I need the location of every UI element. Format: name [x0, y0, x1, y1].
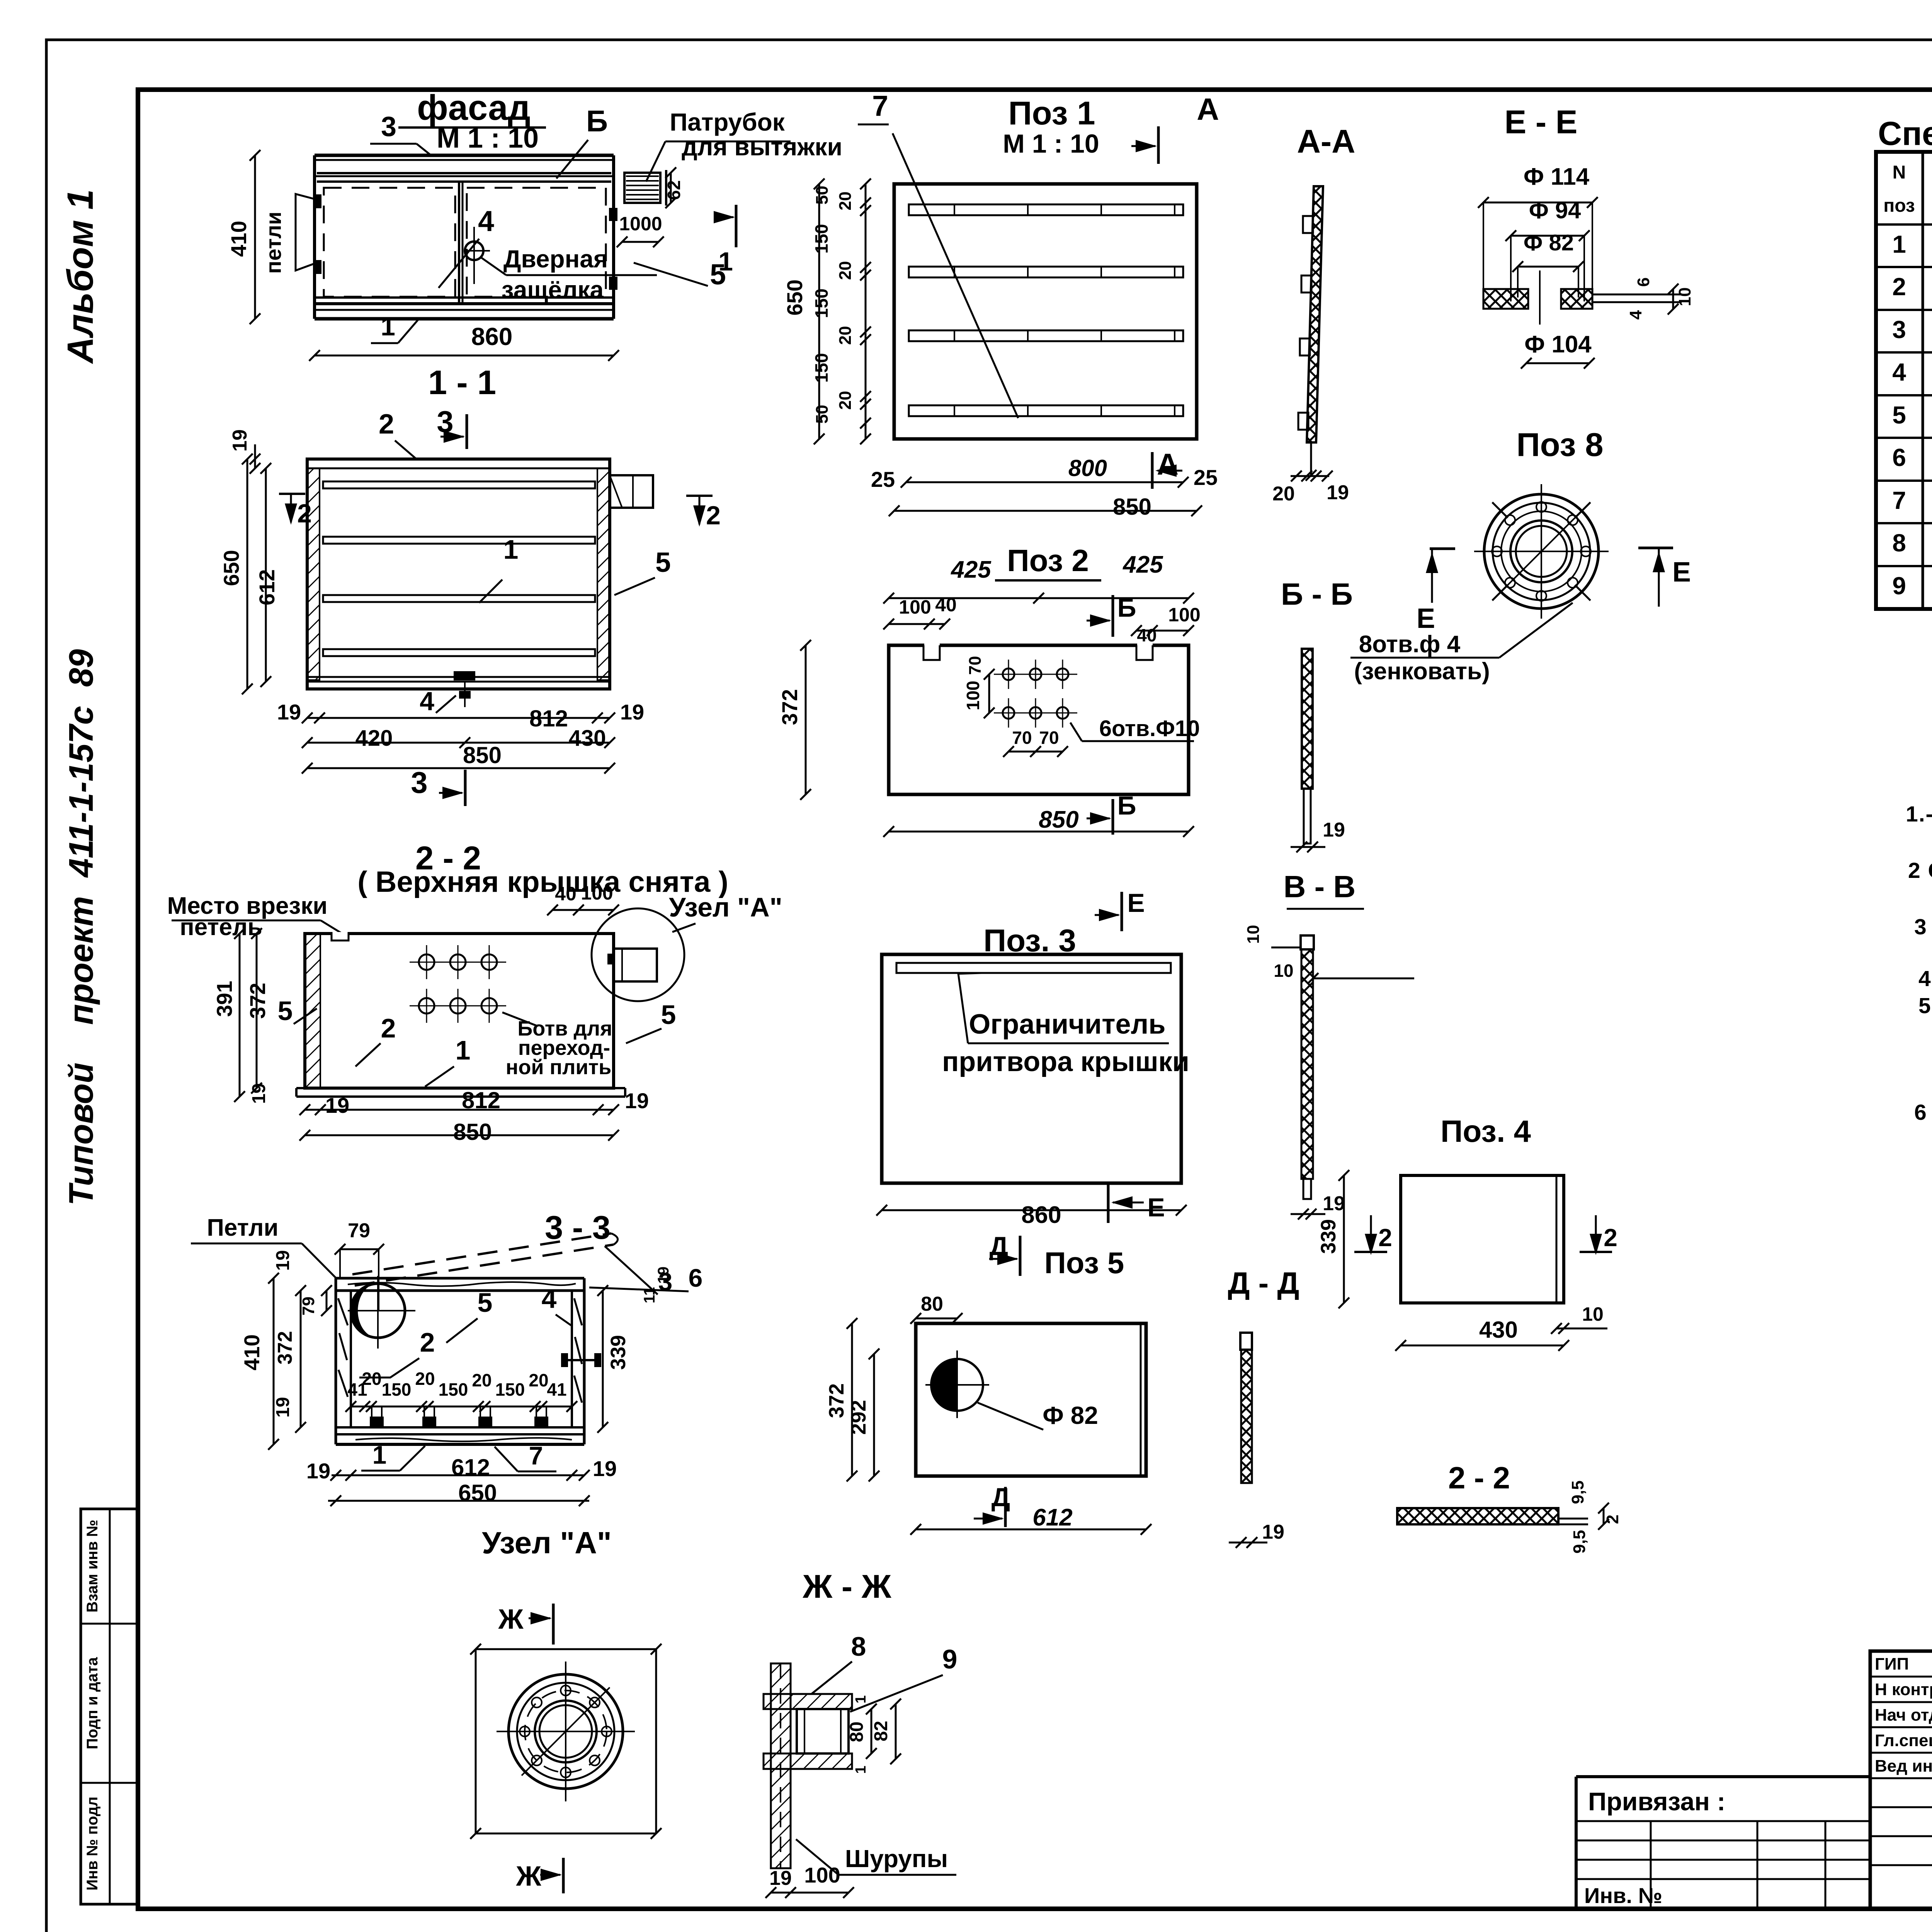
В-В board section [1301, 935, 1314, 949]
svg-text:4: 4 [542, 1284, 557, 1314]
1-1 cabinet body [307, 459, 610, 689]
svg-text:Б: Б [586, 104, 608, 138]
svg-text:Узел "А": Узел "А" [669, 892, 782, 922]
svg-text:19: 19 [1327, 481, 1349, 504]
1-1 left wall hatch [307, 468, 320, 680]
Поз 5 dim 612 [916, 1529, 1146, 1531]
svg-text:5: 5 [661, 1000, 676, 1030]
svg-text:для вытяжки: для вытяжки [682, 133, 842, 161]
Поз 8 centerlines [1474, 551, 1609, 552]
Ж-Ж flange plates [764, 1694, 852, 1709]
svg-text:41: 41 [547, 1379, 566, 1400]
Поз 2 panel [889, 645, 1189, 794]
svg-text:20: 20 [836, 261, 855, 280]
svg-text:Д: Д [992, 1483, 1010, 1512]
2-2 hole circles [419, 954, 434, 970]
svg-text:19: 19 [273, 1250, 293, 1270]
svg-text:Узел "А": Узел "А" [482, 1526, 612, 1560]
Поз 8 section mark Е left [1430, 548, 1455, 550]
3-3 dims 410 372 19 left [273, 1278, 275, 1444]
uzel A flange circles [509, 1674, 623, 1789]
Поз 2 bottom dim 850 [889, 831, 1189, 833]
svg-text:7: 7 [872, 90, 888, 122]
svg-text:8: 8 [1892, 529, 1906, 557]
svg-text:1 - 1: 1 - 1 [428, 363, 496, 401]
svg-text:5: 5 [655, 547, 671, 578]
svg-text:19: 19 [593, 1456, 617, 1481]
2-2 body [305, 934, 614, 1088]
Е-Е ring section [1483, 289, 1528, 309]
svg-text:80: 80 [847, 1721, 867, 1742]
svg-text:1: 1 [718, 247, 733, 276]
2-2 gasket bar [1397, 1508, 1558, 1524]
svg-text:19: 19 [277, 700, 301, 724]
Поз 4 section marks 2 [1370, 1215, 1372, 1252]
svg-text:6отв.Ф10: 6отв.Ф10 [1099, 716, 1200, 741]
svg-text:Взам инв №: Взам инв № [84, 1520, 101, 1612]
svg-text:150: 150 [811, 224, 832, 254]
svg-text:20: 20 [836, 391, 855, 410]
1-1 shelves [323, 481, 595, 488]
svg-text:Поз 5: Поз 5 [1044, 1246, 1124, 1280]
2-2 uzel A circle [592, 908, 684, 1001]
svg-text:70: 70 [1012, 728, 1032, 748]
1-1 section mark 2 right [686, 495, 713, 497]
svg-text:372: 372 [274, 1331, 296, 1365]
svg-text:Дверная: Дверная [503, 245, 608, 273]
svg-text:3 . В местах притвора крышк: 3 . В местах притвора крышки дверок для … [1914, 915, 1932, 939]
svg-text:2 Сопряжения из элементов: 2 Сопряжения из элементов шкафа на шипах… [1908, 858, 1932, 883]
svg-text:62: 62 [664, 180, 684, 200]
svg-text:20: 20 [362, 1369, 381, 1389]
svg-text:3: 3 [381, 111, 396, 142]
svg-text:79: 79 [299, 1297, 318, 1316]
Поз 2 dim 372 left [805, 645, 807, 794]
Поз 5 panel [916, 1323, 1146, 1476]
Ж-Ж wall section [771, 1663, 791, 1868]
1-1 dims 650 612 left [247, 459, 248, 689]
svg-text:М 1 : 10: М 1 : 10 [1003, 129, 1099, 158]
svg-text:2: 2 [1604, 1224, 1617, 1252]
svg-text:20: 20 [472, 1370, 492, 1390]
svg-text:150: 150 [382, 1379, 412, 1400]
svg-text:25: 25 [1194, 465, 1218, 490]
svg-text:2: 2 [297, 499, 312, 528]
svg-text:Ж - Ж: Ж - Ж [802, 1568, 891, 1605]
1-1 section mark 2 left [279, 493, 305, 495]
svg-text:Ж: Ж [498, 1604, 524, 1635]
svg-text:10: 10 [1582, 1303, 1604, 1325]
svg-text:М 1 : 10: М 1 : 10 [437, 123, 539, 154]
svg-text:650: 650 [219, 550, 243, 586]
3-3 hinge circle [351, 1284, 405, 1338]
svg-text:7: 7 [1892, 486, 1906, 514]
svg-text:1: 1 [1892, 230, 1906, 258]
svg-text:9,5: 9,5 [1570, 1530, 1589, 1553]
2-2 top notch [332, 932, 349, 940]
svg-text:Ограничитель: Ограничитель [969, 1009, 1165, 1040]
svg-text:19: 19 [249, 1083, 269, 1104]
svg-text:9: 9 [942, 1644, 957, 1674]
Поз 2 section mark Б bottom [1112, 799, 1114, 835]
svg-text:50: 50 [813, 405, 832, 424]
svg-text:Б - Б: Б - Б [1281, 577, 1353, 611]
2-2 right corner plate [614, 949, 657, 981]
Ж-Ж bottom dims 19 100 [771, 1892, 849, 1894]
svg-text:8отв.ф 4: 8отв.ф 4 [1359, 631, 1461, 658]
svg-text:82: 82 [871, 1721, 891, 1741]
3-3 bottom board [336, 1426, 584, 1429]
svg-text:19: 19 [769, 1867, 792, 1889]
svg-text:1: 1 [853, 1765, 869, 1774]
svg-text:Вед инж: Вед инж [1875, 1757, 1932, 1776]
3-3 dim row 41 20 150 ... [351, 1406, 572, 1408]
svg-text:ГИП: ГИП [1875, 1655, 1909, 1673]
svg-text:20: 20 [836, 326, 855, 345]
svg-text:70: 70 [966, 656, 985, 675]
svg-text:80: 80 [921, 1293, 943, 1315]
svg-text:2: 2 [381, 1013, 396, 1043]
title block Привязан box [1576, 1775, 1870, 1778]
2-2 bottom dims 19 812 19 [305, 1109, 614, 1111]
svg-text:1: 1 [456, 1035, 471, 1065]
svg-text:19: 19 [1323, 819, 1345, 841]
фасад vent patrubok [624, 173, 660, 203]
svg-text:Ф 114: Ф 114 [1524, 163, 1590, 190]
svg-text:1: 1 [853, 1695, 869, 1703]
svg-text:650: 650 [782, 279, 807, 315]
Поз 5 section mark Д top [1019, 1236, 1022, 1276]
svg-text:петли: петли [261, 212, 286, 274]
svg-text:9,5: 9,5 [1568, 1480, 1587, 1504]
svg-text:Подп и дата: Подп и дата [84, 1657, 101, 1749]
Поз 1 bottom dims 25 800 25 850 [906, 481, 1183, 483]
svg-text:Нач отд.: Нач отд. [1875, 1706, 1932, 1725]
svg-text:11: 11 [641, 1287, 658, 1303]
svg-text:Ф 82: Ф 82 [1043, 1401, 1098, 1429]
svg-text:Петли: Петли [207, 1214, 278, 1241]
svg-text:612: 612 [451, 1454, 490, 1480]
svg-text:3 - 3: 3 - 3 [545, 1209, 611, 1246]
svg-text:1: 1 [503, 534, 519, 565]
svg-text:Поз 8: Поз 8 [1516, 427, 1603, 463]
svg-text:6: 6 [1634, 277, 1653, 287]
svg-text:Инв № подл: Инв № подл [84, 1796, 101, 1890]
Поз 1 left dims [865, 184, 867, 439]
svg-text:150: 150 [811, 353, 832, 383]
svg-text:Поз. 4: Поз. 4 [1440, 1114, 1531, 1148]
svg-text:Е: Е [1147, 1193, 1165, 1222]
svg-text:19: 19 [1323, 1192, 1345, 1215]
svg-text:425: 425 [1122, 551, 1163, 578]
svg-text:372: 372 [777, 689, 802, 725]
svg-text:10: 10 [1274, 961, 1293, 981]
svg-text:Е - Е: Е - Е [1505, 104, 1578, 141]
svg-text:Ф 94: Ф 94 [1529, 197, 1581, 223]
svg-text:150: 150 [439, 1379, 468, 1400]
svg-text:4: 4 [420, 687, 434, 716]
svg-text:850: 850 [453, 1119, 492, 1145]
Поз 5 dims 372 292 left [851, 1323, 853, 1476]
svg-text:Гл.спец: Гл.спец [1875, 1731, 1932, 1750]
svg-text:Ф 104: Ф 104 [1524, 331, 1592, 358]
svg-text:3: 3 [1892, 316, 1906, 344]
svg-text:Ф 82: Ф 82 [1524, 230, 1574, 255]
Поз 2 holes 6x Ф10 [1003, 668, 1014, 680]
svg-text:2: 2 [420, 1327, 435, 1357]
svg-text:100: 100 [1168, 604, 1200, 626]
фасад cabinet top cap [315, 154, 614, 157]
svg-text:850: 850 [1113, 494, 1151, 520]
svg-text:2: 2 [1378, 1224, 1392, 1252]
1-1 bottom dims 19 812 19 [307, 717, 610, 719]
А-А board section [1307, 186, 1323, 442]
svg-text:2: 2 [379, 409, 394, 440]
svg-text:Патрубок: Патрубок [670, 108, 785, 136]
svg-text:Поз 1: Поз 1 [1008, 95, 1095, 132]
Поз 5 hole Ф82 [931, 1359, 983, 1411]
svg-text:372: 372 [825, 1383, 848, 1418]
Поз 1 slats [909, 204, 1183, 215]
фасад door latch circle [465, 241, 483, 260]
svg-text:40: 40 [935, 594, 957, 616]
svg-text:50: 50 [813, 186, 832, 205]
svg-text:339: 339 [607, 1335, 630, 1370]
svg-text:650: 650 [458, 1480, 497, 1506]
svg-text:10: 10 [1675, 287, 1694, 306]
svg-text:19: 19 [229, 429, 251, 452]
svg-text:5 Проводка проводов осущест: 5 Проводка проводов осуществляется через… [1918, 993, 1932, 1018]
Поз 4 panel [1401, 1175, 1564, 1303]
svg-text:поз: поз [1883, 196, 1915, 216]
1-1 right wall hatch [597, 468, 610, 680]
svg-text:25: 25 [871, 467, 895, 492]
svg-text:372: 372 [245, 983, 270, 1019]
фасад hinges [314, 195, 321, 207]
svg-text:1.- Аккумуляторный шкаф из: 1.- Аккумуляторный шкаф из досок после [1906, 802, 1932, 827]
uzel A bolt holes [561, 1685, 571, 1696]
svg-text:защёлка: защёлка [502, 276, 604, 304]
svg-text:430: 430 [1479, 1317, 1518, 1343]
svg-text:19: 19 [625, 1088, 649, 1113]
svg-text:6: 6 [689, 1264, 703, 1292]
svg-text:19: 19 [273, 1397, 293, 1417]
2-2 bottom base board [296, 1087, 625, 1089]
svg-text:19: 19 [620, 700, 644, 724]
svg-text:430: 430 [569, 726, 606, 751]
3-3 open lid dashed [352, 1233, 611, 1274]
svg-text:410: 410 [240, 1334, 264, 1370]
1-1 vent patrubok right [610, 475, 653, 508]
svg-text:19: 19 [655, 1267, 672, 1284]
1-1 bottom latch [454, 672, 474, 680]
2-2 left wall hatch [305, 934, 320, 1088]
svg-text:А: А [1197, 92, 1219, 126]
svg-text:Д - Д: Д - Д [1228, 1266, 1299, 1300]
3-3 dims right 339 11 19 [602, 1291, 604, 1427]
svg-text:Поз 2: Поз 2 [1007, 543, 1089, 578]
svg-text:1: 1 [372, 1440, 387, 1469]
svg-text:ной плиты: ной плиты [506, 1056, 616, 1079]
spec table grid [1876, 152, 1932, 609]
Б-Б board section [1302, 649, 1313, 789]
uzel A dimension box [475, 1649, 477, 1833]
1-1 bottom board [307, 676, 610, 678]
2-2 dim 850 [305, 1134, 614, 1136]
Поз 2 section mark Б top [1112, 595, 1114, 637]
svg-text:В - В: В - В [1284, 869, 1356, 904]
Поз 4 dim 339 left [1343, 1175, 1345, 1303]
svg-text:800: 800 [1068, 455, 1107, 481]
2-2 dims 391 372 left [239, 934, 241, 1097]
svg-text:Шурупы: Шурупы [845, 1845, 948, 1872]
svg-text:2 - 2: 2 - 2 [1448, 1461, 1510, 1495]
фасад dim 860 [315, 355, 614, 357]
svg-text:притвора крышки: притвора крышки [942, 1046, 1189, 1077]
svg-text:20: 20 [836, 192, 855, 211]
svg-text:2: 2 [1892, 273, 1906, 301]
svg-text:N: N [1893, 162, 1906, 183]
svg-text:4 Шкаф внутри окрашивается: 4 Шкаф внутри окрашивается щелочноупорно… [1918, 966, 1932, 991]
svg-text:100: 100 [804, 1863, 840, 1887]
фасад section mark 1 right [735, 205, 738, 247]
svg-text:8: 8 [851, 1631, 866, 1662]
svg-text:100: 100 [899, 596, 931, 618]
svg-text:860: 860 [1021, 1202, 1061, 1228]
Д-Д board section [1240, 1333, 1252, 1350]
svg-text:Б: Б [1117, 791, 1136, 820]
svg-text:812: 812 [462, 1087, 500, 1113]
svg-text:391: 391 [212, 981, 236, 1017]
svg-text:612: 612 [255, 569, 279, 605]
svg-text:2: 2 [706, 501, 721, 530]
svg-text:40: 40 [555, 883, 577, 905]
Поз 3 bottom dim 860 [882, 1209, 1181, 1211]
svg-text:петель: петель [180, 914, 262, 940]
svg-text:4: 4 [1626, 310, 1645, 320]
Поз 2 top dims 425 425 [889, 597, 1189, 599]
svg-text:19: 19 [325, 1093, 349, 1117]
svg-text:150: 150 [495, 1379, 525, 1400]
А-А bottom dims 20 19 [1310, 442, 1312, 475]
svg-text:850: 850 [1039, 806, 1078, 833]
svg-text:850: 850 [463, 742, 502, 768]
фасад left door dashed [324, 188, 455, 297]
фасад bottom band [315, 296, 614, 299]
svg-text:10: 10 [1244, 925, 1263, 944]
фасад door divider [458, 182, 460, 304]
svg-text:1000: 1000 [619, 213, 662, 235]
uzel A centerlines [497, 1731, 635, 1732]
title block signature table [1870, 1651, 1932, 1909]
svg-text:6: 6 [1892, 444, 1906, 471]
svg-text:фасад: фасад [417, 88, 531, 128]
svg-text:9: 9 [1892, 572, 1906, 600]
svg-text:292: 292 [847, 1400, 870, 1435]
svg-text:4: 4 [478, 205, 494, 237]
svg-text:Е: Е [1672, 557, 1691, 588]
svg-text:79: 79 [348, 1219, 370, 1242]
bottom-left stamp strip [81, 1509, 138, 1904]
svg-text:150: 150 [811, 289, 832, 318]
svg-text:Привязан :: Привязан : [1588, 1787, 1725, 1816]
Поз 2 notches [924, 643, 940, 648]
svg-text:Ж: Ж [515, 1861, 541, 1892]
svg-text:612: 612 [1032, 1504, 1072, 1531]
фасад dim 410 vertical [254, 155, 256, 319]
svg-text:20: 20 [529, 1370, 548, 1390]
Ж-Ж dims 80 82 right [871, 1709, 872, 1753]
svg-text:19: 19 [306, 1459, 330, 1483]
3-3 latch right [564, 1359, 599, 1361]
3-3 bottom dims 19 612 19 650 [332, 1475, 584, 1476]
svg-text:100: 100 [581, 882, 613, 904]
svg-text:420: 420 [355, 726, 393, 751]
Поз 8 section mark Е right [1638, 547, 1673, 549]
svg-text:410: 410 [226, 221, 251, 257]
Ж-Ж pipe [797, 1709, 849, 1753]
svg-text:6 Петли - 6 шт защелка: 6 Петли - 6 шт защелка дверная - 1 шт [1914, 1100, 1932, 1125]
svg-text:339: 339 [1317, 1219, 1340, 1254]
Поз 8 ring with bolt holes [1484, 494, 1599, 609]
svg-text:Б: Б [1117, 593, 1136, 622]
svg-text:Н контр: Н контр [1875, 1680, 1932, 1699]
svg-text:Типовой проект 411-1-157с: Типовой проект 411-1-157с 89 [62, 649, 100, 1206]
svg-text:20: 20 [1272, 483, 1295, 505]
Поз 3 section mark Е top [1121, 892, 1123, 931]
svg-text:425: 425 [950, 556, 992, 583]
svg-text:Е: Е [1127, 888, 1145, 918]
svg-text:20: 20 [415, 1369, 435, 1389]
svg-text:Альбом 1: Альбом 1 [60, 189, 101, 364]
svg-text:100: 100 [963, 681, 983, 711]
svg-text:7: 7 [529, 1441, 543, 1470]
svg-text:(зенковать): (зенковать) [1354, 658, 1490, 685]
1-1 dim 850 [307, 767, 610, 769]
svg-text:70: 70 [1039, 728, 1059, 748]
1-1 dims 420 430 [307, 742, 610, 744]
svg-text:19: 19 [1262, 1521, 1284, 1543]
А-А rail tabs [1303, 216, 1313, 233]
svg-text:Е: Е [1417, 603, 1435, 634]
svg-text:Д: Д [990, 1231, 1008, 1261]
svg-text:А-А: А-А [1297, 123, 1355, 160]
svg-text:812: 812 [529, 706, 568, 731]
фасад right door dashed [467, 188, 606, 297]
3-3 rail posts [371, 1406, 372, 1427]
svg-text:Спецификация на шкаф: Спецификация на шкаф [1878, 115, 1932, 152]
Поз 3 limiter strip [896, 963, 1171, 973]
3-3 body walls [335, 1278, 337, 1444]
svg-text:1: 1 [381, 312, 395, 341]
svg-text:5: 5 [1892, 401, 1906, 429]
svg-text:5: 5 [478, 1287, 493, 1318]
svg-text:3: 3 [411, 765, 427, 799]
svg-text:860: 860 [471, 323, 513, 350]
svg-text:4: 4 [1892, 358, 1906, 386]
svg-text:Инв. №: Инв. № [1584, 1883, 1662, 1908]
3-3 lid board [336, 1277, 584, 1280]
svg-text:5: 5 [278, 996, 293, 1026]
Поз 3 panel [882, 954, 1181, 1183]
Поз 3 section mark Е bottom [1107, 1183, 1110, 1223]
Поз 1 panel [894, 184, 1197, 439]
